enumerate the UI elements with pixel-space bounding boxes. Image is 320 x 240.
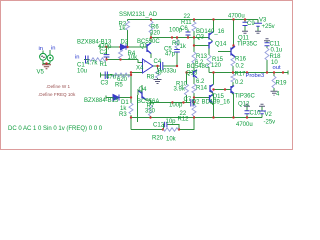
wire feedback column — [130, 73, 132, 130]
resistor R8 — [156, 70, 160, 78]
wire Q15 emitter — [210, 102, 214, 105]
capacitor C9 — [243, 22, 248, 25]
resistor R10 — [185, 84, 189, 95]
resistor R17 — [231, 74, 235, 82]
svg-text:R3: R3 — [119, 112, 127, 118]
svg-text:R16: R16 — [235, 57, 247, 63]
ground R8 — [154, 80, 162, 84]
wire C11 R18 column — [266, 41, 268, 73]
wire Q15 base row — [194, 97, 210, 99]
svg-text:R1: R1 — [100, 62, 108, 68]
svg-text:Q4: Q4 — [139, 87, 148, 93]
svg-text:C6: C6 — [180, 26, 188, 32]
wire V3 drop — [257, 20, 259, 32]
wire output rail — [209, 71, 288, 75]
transistor Q2 upper — [210, 85, 213, 93]
svg-text:V2: V2 — [265, 112, 273, 118]
wire Q14 emitter to R15 — [208, 49, 210, 56]
svg-text:BC548C: BC548C — [187, 64, 210, 70]
svg-text:6.2: 6.2 — [196, 79, 205, 85]
transistor Q12 — [231, 86, 234, 94]
ground V2 — [259, 104, 265, 106]
svg-text:4.7k: 4.7k — [86, 61, 98, 67]
wire Q14 base row — [194, 45, 209, 47]
wire VAS base row — [151, 37, 209, 39]
wire C10 riser — [246, 107, 248, 118]
resistor R15 — [207, 55, 211, 67]
resistor R16 — [231, 56, 235, 66]
svg-text:DC 0 AC 1 0 Sin 0 1v (FREQ) 0: DC 0 AC 1 0 Sin 0 1v (FREQ) 0 0 0 — [8, 126, 103, 132]
wire zener D2 row — [100, 45, 147, 50]
wire V5 stubs — [43, 50, 50, 65]
wire R2 column — [127, 20, 129, 48]
wire R14 column — [193, 77, 195, 98]
wire Q11 emitter — [231, 54, 233, 57]
svg-text:1k: 1k — [180, 44, 187, 50]
wire C3 R5 row — [101, 73, 132, 78]
wire top rail — [128, 19, 259, 21]
svg-text:3.9k: 3.9k — [174, 87, 186, 93]
svg-text:.Define FREQ 10k: .Define FREQ 10k — [38, 92, 76, 97]
wire Q1 emitter — [147, 50, 151, 58]
svg-text:100p: 100p — [169, 103, 183, 109]
wire opamp output row — [153, 65, 177, 67]
svg-text:.Define W 1: .Define W 1 — [46, 84, 70, 89]
svg-text:R19: R19 — [276, 81, 288, 87]
wire V2 riser — [261, 107, 263, 118]
ground V5 — [42, 65, 51, 69]
transistor Q13 — [194, 70, 198, 78]
svg-text:C3: C3 — [101, 81, 109, 87]
wire C9 drop — [244, 20, 246, 32]
svg-text:V3: V3 — [259, 18, 267, 24]
wire Q12 emitter — [231, 92, 234, 118]
svg-text:320: 320 — [150, 31, 161, 37]
wire Q4 emitter — [142, 97, 151, 103]
svg-text:out: out — [273, 65, 281, 71]
wire R4 column — [120, 47, 122, 60]
wire C2 stub — [106, 47, 108, 60]
wire Q4 collector — [138, 90, 143, 100]
resistor R20 — [164, 128, 179, 132]
svg-text:in: in — [75, 55, 80, 61]
wire R8 drop — [157, 66, 159, 79]
wire R10 column — [186, 73, 188, 103]
svg-text:Q2: Q2 — [192, 100, 201, 106]
transistor Q11 — [231, 46, 235, 56]
wire R6 column — [147, 20, 151, 47]
border frame — [1, 1, 293, 150]
wire R15 to out row — [208, 67, 210, 73]
svg-text:Q3: Q3 — [196, 35, 205, 41]
svg-text:0.1u: 0.1u — [271, 48, 283, 54]
svg-text:C4: C4 — [154, 59, 162, 65]
resistor R13 — [192, 52, 196, 63]
transistor Q15 — [210, 95, 213, 103]
capacitor C4 — [161, 62, 163, 70]
wire opamp minus input — [131, 72, 143, 74]
svg-text:Q12: Q12 — [238, 102, 250, 108]
wire feedback row — [131, 118, 194, 130]
capacitor C10 — [245, 111, 250, 114]
resistor R11 — [192, 22, 196, 31]
svg-text:C10: C10 — [250, 111, 262, 117]
svg-text:+25v: +25v — [262, 24, 275, 30]
transistor Q3 — [209, 32, 213, 40]
svg-text:BZX884-B13: BZX884-B13 — [84, 98, 119, 104]
wire Q3 collector to rail — [209, 20, 214, 36]
wire driver emitter — [210, 91, 214, 118]
svg-text:Q1: Q1 — [140, 44, 149, 50]
wire upper driver column — [210, 73, 214, 87]
svg-text:0.2: 0.2 — [236, 64, 245, 70]
ground C10 — [244, 104, 250, 106]
diode D1 — [113, 95, 119, 101]
svg-text:in: in — [39, 46, 44, 52]
resistor R4 — [119, 50, 123, 59]
diode D2 — [121, 44, 127, 50]
wire input row — [84, 60, 143, 63]
op-amp X4 — [143, 59, 154, 74]
svg-text:R20: R20 — [152, 136, 164, 142]
resistor R2 — [126, 21, 130, 30]
wire R11 column — [193, 20, 195, 46]
capacitor C1 — [86, 56, 89, 64]
svg-text:C2: C2 — [100, 50, 108, 56]
capacitor C3 — [105, 72, 107, 80]
resistor R7 — [149, 105, 153, 116]
svg-text:R5: R5 — [115, 83, 123, 89]
wire C7 row — [151, 102, 195, 104]
svg-text:Q13: Q13 — [186, 71, 198, 77]
source V5 sine — [40, 53, 47, 60]
svg-text:47: 47 — [156, 71, 163, 77]
battery V2 — [258, 111, 266, 114]
resistor R12 — [192, 105, 196, 116]
wire R17 column — [231, 73, 233, 88]
svg-text:Q14: Q14 — [215, 42, 227, 48]
svg-text:C9: C9 — [247, 21, 255, 27]
resistor R14 — [192, 84, 196, 93]
svg-text:R14: R14 — [196, 86, 208, 92]
wire R13 column — [193, 46, 195, 72]
ground C11 top — [264, 39, 270, 41]
capacitor C5 — [174, 50, 180, 53]
wire Q11 base — [218, 51, 231, 53]
svg-text:120: 120 — [211, 63, 222, 69]
resistor R3 — [129, 103, 133, 114]
svg-text:C12: C12 — [153, 123, 165, 129]
svg-text:47p: 47p — [165, 52, 176, 58]
wire R16 column — [232, 66, 234, 73]
wire Q13 base stub — [187, 72, 193, 74]
svg-text:TIP36C: TIP36C — [235, 94, 256, 100]
svg-text:X4: X4 — [136, 66, 144, 72]
wire bottom rail — [131, 117, 262, 119]
capacitor C7 — [191, 99, 193, 107]
svg-text:Probe3: Probe3 — [246, 73, 265, 79]
svg-text:4700u: 4700u — [236, 122, 253, 128]
wire Q12 base row — [214, 89, 232, 91]
wire R7 column — [150, 103, 152, 118]
wire C6 branch — [187, 30, 189, 38]
capacitor C12 — [165, 122, 167, 127]
resistor R19 — [272, 76, 276, 88]
svg-text:in: in — [51, 46, 56, 52]
wire Q15 collector — [210, 95, 214, 98]
wire zener D1 row — [106, 96, 131, 100]
wire R19 column — [273, 73, 275, 92]
wire C12 parallel branch — [164, 125, 180, 130]
svg-text:10p: 10p — [166, 119, 177, 125]
svg-text:10k: 10k — [128, 55, 139, 61]
svg-text:R8: R8 — [147, 75, 155, 81]
svg-text:-25v: -25v — [264, 120, 276, 126]
wire R12 column — [193, 98, 195, 118]
ground C9 — [242, 31, 248, 33]
resistor R6 — [149, 21, 153, 33]
resistor R1 — [90, 58, 107, 62]
svg-text:SSM2131_AD: SSM2131_AD — [119, 12, 158, 18]
transistor Q14 — [209, 41, 213, 48]
resistor R18 — [265, 48, 269, 60]
svg-text:D2: D2 — [121, 40, 129, 46]
svg-text:4700u: 4700u — [228, 14, 245, 20]
ground R19 — [271, 91, 278, 95]
capacitor C11 — [265, 43, 270, 46]
battery V3 — [254, 23, 262, 26]
svg-text:320: 320 — [145, 109, 156, 115]
capacitor C2 — [104, 55, 110, 57]
wire R9 C5 column — [176, 38, 178, 67]
transistor Q4 — [139, 91, 146, 100]
wire Q3 Q14 link — [209, 38, 213, 44]
resistor R5 — [112, 73, 130, 77]
source meter — [47, 55, 53, 61]
capacitor C6 — [186, 32, 191, 35]
svg-text:0.2: 0.2 — [235, 80, 244, 86]
svg-text:+: + — [144, 60, 147, 65]
svg-text:V5: V5 — [37, 70, 45, 76]
svg-text:10k: 10k — [166, 137, 177, 143]
svg-text:10u: 10u — [77, 69, 87, 75]
svg-text:R12: R12 — [178, 117, 190, 123]
transistor Q1 — [147, 43, 151, 54]
wire Q4 column — [138, 85, 143, 122]
svg-text:BD139_16: BD139_16 — [202, 100, 231, 106]
ground V3 — [255, 31, 261, 33]
svg-text:1k: 1k — [119, 26, 126, 32]
resistor R9 — [175, 40, 179, 48]
svg-text:R17: R17 — [235, 72, 247, 78]
wire Q11 collector — [231, 20, 234, 50]
svg-text:TIP35C: TIP35C — [237, 42, 258, 48]
